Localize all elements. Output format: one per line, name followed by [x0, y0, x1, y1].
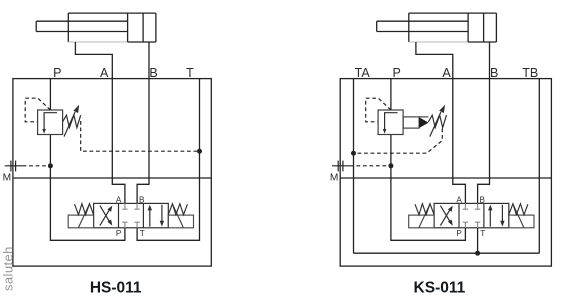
wire B: cylinder to valve (KS) — [478, 42, 490, 203]
relief valve HS body — [38, 110, 63, 135]
block divider line HS — [13, 177, 211, 179]
junction dot T on tank line (KS) — [475, 251, 480, 256]
wire P lower to valve P port (HS) — [50, 135, 125, 241]
gauge port M KS — [332, 165, 350, 167]
valve KS parallel-flow arrows — [489, 209, 491, 227]
wire T from valve to tank line (KS) — [477, 228, 479, 253]
relief valve HS spring — [63, 115, 81, 127]
svg-text:B: B — [149, 66, 157, 80]
relief valve KS adjustment arrow — [430, 112, 441, 137]
relief valve HS flow arrow — [44, 113, 57, 131]
svg-text:B: B — [139, 195, 145, 204]
solenoid KS left — [409, 215, 434, 228]
cylinder HS rod — [36, 20, 127, 22]
spring HS right — [168, 204, 187, 215]
spring KS right — [509, 204, 528, 215]
relief valve HS adjustment arrow — [64, 112, 75, 137]
wire P upper (HS) — [49, 79, 51, 110]
cylinder KS rod — [377, 20, 468, 22]
manifold block KS — [340, 79, 551, 267]
wire A: cylinder to valve (HS) — [75, 42, 125, 203]
tank line TA-TB (KS) — [354, 252, 540, 254]
svg-text:TA: TA — [355, 66, 371, 80]
svg-text:A: A — [456, 195, 462, 204]
svg-text:A: A — [116, 195, 122, 204]
relief valve KS spring — [428, 115, 446, 127]
relief valve KS pilot stage box — [403, 117, 419, 128]
svg-text:T: T — [140, 229, 145, 238]
solenoid HS left — [68, 215, 93, 228]
valve KS blocked port T — [477, 222, 479, 228]
svg-text:P: P — [456, 229, 462, 238]
valve KS blocked port A — [464, 203, 466, 209]
junction dot on T line HS — [197, 149, 202, 154]
svg-text:M: M — [3, 173, 12, 184]
svg-text:saluteh: saluteh — [0, 246, 15, 291]
valve HS blocked port P — [124, 222, 126, 228]
svg-text:P: P — [393, 66, 401, 80]
wire P lower to valve P port (KS) — [391, 135, 466, 241]
directional valve KS body — [434, 203, 509, 227]
directional valve HS body — [94, 203, 169, 227]
gauge port M HS — [5, 165, 23, 167]
valve KS blocked port P — [464, 222, 466, 228]
svg-text:A: A — [100, 66, 109, 80]
wire P upper (KS) — [390, 79, 392, 110]
block divider line KS — [340, 177, 551, 179]
relief valve KS pilot line (dashed) — [366, 98, 391, 122]
svg-text:HS-011: HS-011 — [90, 279, 142, 296]
relief valve KS body — [378, 110, 403, 135]
relief valve KS flow arrow — [385, 113, 398, 131]
valve HS parallel-flow arrows — [149, 209, 151, 227]
junction dot on P line HS — [48, 163, 53, 168]
svg-text:TB: TB — [522, 66, 538, 80]
svg-text:T: T — [186, 66, 194, 80]
manifold block HS — [13, 79, 211, 267]
wire TA (KS) — [353, 79, 355, 254]
svg-text:P: P — [53, 66, 61, 80]
wire B: cylinder to valve (HS) — [137, 42, 149, 203]
spring HS left — [75, 204, 94, 215]
relief valve HS pilot line (dashed) — [25, 98, 50, 122]
valve HS blocked port A — [124, 203, 126, 209]
svg-text:B: B — [490, 66, 498, 80]
svg-text:KS-011: KS-011 — [414, 279, 466, 296]
solenoid HS right — [168, 215, 193, 228]
relief valve KS drain line (dashed) to TA — [356, 129, 442, 154]
solenoid KS right — [509, 215, 534, 228]
spring KS left — [415, 204, 434, 215]
relief valve KS solid triangle — [419, 117, 429, 128]
cylinder HS piston — [127, 13, 129, 42]
valve HS blocked port T — [136, 222, 138, 228]
svg-text:A: A — [442, 66, 451, 80]
valve KS crossed-flow arrows — [440, 208, 451, 226]
svg-text:T: T — [480, 229, 485, 238]
svg-text:M: M — [330, 173, 339, 184]
wire TB (KS) — [538, 79, 540, 254]
svg-text:B: B — [479, 195, 485, 204]
valve HS crossed-flow arrows — [100, 208, 111, 226]
wire A: cylinder to valve (KS) — [416, 42, 466, 203]
wire T to valve T port (HS) — [137, 79, 199, 241]
svg-text:P: P — [116, 229, 122, 238]
junction dot on P line KS — [388, 163, 393, 168]
junction dot on TA line KS — [351, 151, 356, 156]
cylinder KS piston — [467, 13, 469, 42]
M KS dashed gauge line — [350, 165, 389, 167]
cylinder HS body — [68, 12, 156, 14]
relief valve HS drain line (dashed) to T — [81, 121, 198, 151]
M HS dashed gauge line — [23, 165, 49, 167]
valve KS blocked port B — [477, 203, 479, 209]
valve HS blocked port B — [136, 203, 138, 209]
cylinder KS body — [409, 12, 497, 14]
